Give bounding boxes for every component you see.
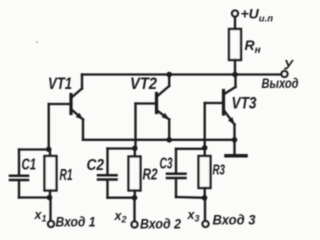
wire emitter bus — [83, 139, 235, 141]
terminal +Uип — [232, 11, 238, 30]
wire input3 drop — [204, 198, 206, 221]
resistor R1 — [45, 149, 57, 197]
wire VT2 emitter drop — [168, 120, 170, 141]
svg-text:x3: x3 — [187, 208, 200, 224]
svg-text:R2: R2 — [143, 167, 158, 184]
wire VT1 base riser — [48, 104, 50, 149]
wire Rн bottom — [234, 60, 236, 75]
svg-text:Выход: Выход — [262, 76, 299, 91]
wire C3 bottom link — [176, 196, 205, 199]
wire input2 drop — [133, 198, 135, 222]
resistor Rн — [229, 29, 241, 60]
resistor R3 — [199, 148, 211, 198]
node base1-RC junction — [46, 147, 52, 153]
svg-text:VT3: VT3 — [232, 94, 257, 113]
wire C2 bottom link — [108, 197, 135, 199]
svg-text:С3: С3 — [160, 156, 173, 173]
transistor VT2 — [157, 75, 170, 120]
wire collector rail — [82, 73, 282, 75]
wire C2 top link — [108, 147, 136, 149]
node bus-VT3 emitter — [232, 137, 238, 143]
wire C1 bottom link — [19, 196, 49, 198]
capacitor C2 — [98, 149, 117, 198]
terminal Вход1 — [48, 221, 54, 227]
capacitor C3 — [167, 149, 186, 197]
wire VT1 emitter drop — [82, 120, 84, 140]
svg-text:VT2: VT2 — [130, 74, 157, 93]
svg-text:R3: R3 — [213, 163, 226, 179]
transistor VT1 — [71, 75, 83, 120]
resistor R2 — [129, 148, 141, 197]
ground — [226, 154, 246, 158]
node rail-Rн-VT3 junction — [232, 72, 238, 78]
svg-text:Rн: Rн — [245, 37, 261, 56]
node input1 junction — [47, 195, 53, 201]
svg-text:Вход 3: Вход 3 — [213, 212, 256, 228]
wire VT2 base lead — [136, 102, 156, 104]
transistor VT3 — [224, 75, 236, 125]
capacitor C1 — [10, 150, 28, 198]
wire VT3 base lead — [205, 102, 222, 104]
svg-text:x2: x2 — [114, 209, 127, 225]
wire C3 top link — [176, 148, 205, 150]
node base3-RC junction — [202, 145, 208, 151]
svg-text:Вход 1: Вход 1 — [56, 214, 96, 230]
node rail-VT2 junction — [166, 72, 172, 78]
svg-text:С2: С2 — [87, 157, 105, 174]
wire VT3 base riser — [204, 103, 206, 148]
svg-text:VT1: VT1 — [48, 74, 72, 93]
svg-text:Вход 2: Вход 2 — [140, 216, 181, 232]
terminal Вход3 — [203, 221, 209, 227]
terminal Вход2 — [132, 222, 138, 228]
node input2 junction — [132, 195, 138, 201]
wire VT3 emitter drop — [233, 125, 235, 155]
svg-text:x1: x1 — [34, 208, 47, 224]
terminal output — [282, 71, 288, 77]
wire VT2 base riser — [134, 104, 136, 149]
svg-text:С1: С1 — [22, 157, 37, 174]
wire input1 drop — [49, 198, 51, 221]
node bus-VT2 emitter — [166, 137, 172, 143]
svg-text:У: У — [284, 57, 295, 73]
svg-text:R1: R1 — [60, 167, 73, 184]
wire VT1 base lead — [49, 103, 70, 105]
svg-text:+Uи.п: +Uи.п — [241, 6, 274, 25]
node input3 junction — [202, 195, 208, 201]
wire C1 top link — [19, 148, 49, 150]
node base2-RC junction — [132, 146, 138, 152]
speck — [36, 41, 38, 43]
